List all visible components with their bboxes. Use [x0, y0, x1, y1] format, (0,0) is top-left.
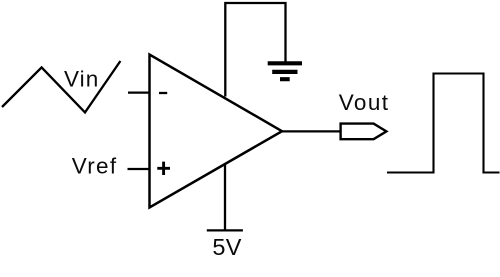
minus sign (inverting input marker) — [159, 92, 167, 94]
svg-text:Vin: Vin — [64, 66, 99, 91]
output port flag Vout — [341, 124, 387, 140]
wire: output from op-amp apex — [282, 130, 341, 132]
5V supply rail bar — [207, 229, 243, 231]
op-amp U1 — [150, 55, 283, 208]
wire: non-inverting input stub — [128, 168, 150, 170]
ground symbol — [268, 63, 302, 79]
svg-text:Vout: Vout — [339, 90, 390, 115]
svg-text:Vref: Vref — [72, 154, 118, 179]
plus sign (non-inverting input marker) — [157, 162, 170, 175]
wire: inverting input stub — [128, 91, 150, 93]
square-wave output signal — [387, 74, 500, 173]
triangle-wave input signal — [2, 61, 120, 112]
wire: positive supply to ground loop — [225, 3, 285, 97]
svg-text:5V: 5V — [212, 234, 241, 260]
wire: negative supply (to 5V rail) — [224, 164, 226, 231]
